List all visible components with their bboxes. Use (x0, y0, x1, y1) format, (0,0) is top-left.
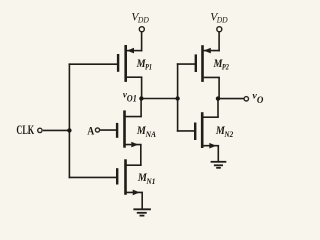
wire CLK vertical bus (68, 63, 70, 178)
svg-text:O1: O1 (127, 94, 137, 104)
transistor MN2 (195, 112, 202, 148)
transistor MP1 (118, 45, 126, 82)
svg-text:CLK: CLK (16, 123, 34, 137)
svg-text:DD: DD (216, 15, 229, 25)
arrow MP1 source (PMOS) (127, 48, 134, 54)
wire MP2 drain lead (204, 76, 220, 78)
wire MN1 source to ground (141, 192, 143, 209)
transistor MNA (117, 110, 124, 147)
wire output node to vO terminal (218, 98, 244, 100)
node output junction dot (216, 96, 220, 100)
svg-text:P2: P2 (222, 62, 229, 71)
arrow MP2 source (PMOS) (204, 48, 211, 54)
label MN2 (215, 125, 233, 139)
label node vO1 (123, 89, 137, 103)
label output vO (252, 91, 263, 106)
wire MN2 drain lead (203, 116, 219, 118)
arrow MNA source (NMOS) (131, 142, 138, 148)
wire MNA drain to node vO1 (140, 99, 142, 117)
wire inverter input vertical (177, 63, 179, 131)
terminal circle A (95, 128, 99, 132)
wire A terminal to MNA gate (100, 129, 116, 131)
svg-text:DD: DD (137, 15, 150, 25)
wire MP1 drain lead (127, 76, 143, 78)
svg-text:O: O (257, 96, 264, 106)
arrow MN2 source (NMOS) (209, 143, 216, 149)
wire MNA source to MN1 drain (140, 145, 142, 166)
svg-text:NA: NA (145, 130, 157, 139)
wire MP1 source lead (127, 50, 143, 52)
wire node vO1 to junction (142, 98, 178, 100)
wire MP2 source lead (204, 50, 220, 52)
ground (MN2 source) (211, 162, 227, 168)
wire CLK bus to MN1 gate (69, 176, 117, 178)
transistor MN1 (117, 159, 125, 195)
label VDD (left supply) (131, 10, 149, 25)
wire MN2 source lead (203, 145, 219, 147)
transistor MP2 (196, 45, 203, 82)
wire MN2 drain to output node (217, 99, 219, 118)
label MN1 (137, 172, 155, 186)
wire CLK bus to MP1 gate (69, 63, 118, 65)
terminal circle VDD2 (217, 27, 222, 32)
label VDD (right supply) (210, 10, 228, 25)
wire to MP2 gate (177, 63, 195, 65)
wire to MN2 gate (177, 130, 195, 132)
wire VDD1 to MP1 source (141, 32, 143, 52)
arrow MN1 source (NMOS) (133, 190, 140, 196)
wire CLK terminal to CLK junction (43, 129, 70, 131)
label MP1 (136, 58, 152, 71)
wire VDD2 to MP2 source (218, 32, 220, 52)
node vO1 junction dot (139, 96, 143, 100)
wire MNA drain lead (126, 116, 142, 118)
ground (MN1 source) (133, 209, 151, 215)
wire MN1 source lead (127, 191, 144, 193)
svg-text:P1: P1 (145, 62, 152, 71)
wire MP1 drain to node vO1 (141, 77, 143, 98)
wire MP2 drain to output node (218, 77, 220, 98)
label MNA (136, 125, 157, 139)
terminal circle VDD1 (139, 27, 144, 32)
node CLK junction dot (67, 128, 71, 132)
svg-text:N1: N1 (145, 177, 155, 186)
node inverter-input junction dot (175, 96, 179, 100)
svg-text:N2: N2 (224, 130, 234, 139)
svg-text:A: A (87, 126, 95, 138)
terminal circle vO (244, 97, 248, 101)
wire MN1 drain lead (127, 164, 142, 166)
terminal circle CLK (38, 128, 42, 132)
label MP2 (213, 58, 229, 71)
wire MN2 source to ground (217, 146, 219, 162)
wire MNA source lead (126, 144, 142, 146)
